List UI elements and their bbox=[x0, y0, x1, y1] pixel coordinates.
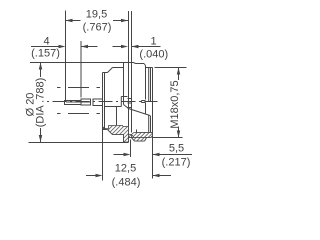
main body bottom bbox=[113, 134, 129, 136]
hatched collar band bbox=[132, 138, 147, 142]
insulator cone (section) bbox=[124, 105, 151, 116]
front interior verticals lower bbox=[149, 116, 151, 133]
M18 extension top y=67.5 bbox=[155, 67, 187, 69]
hatched gasket sliver bbox=[129, 135, 132, 138]
solder cup inner line bbox=[66, 101, 91, 103]
arrow 1 right bbox=[132, 45, 139, 49]
svg-text:(DIA .788): (DIA .788) bbox=[34, 78, 46, 128]
svg-text:(.484): (.484) bbox=[112, 177, 141, 189]
thread top bbox=[146, 67, 153, 69]
collar top right corner bbox=[144, 64, 146, 66]
collar bottom bbox=[135, 140, 145, 142]
arrow M18 down bbox=[177, 131, 181, 138]
rear face line 2 bbox=[104, 73, 106, 130]
collar bottom chamfer right bbox=[145, 138, 147, 142]
svg-text:19,5: 19,5 bbox=[86, 8, 107, 20]
collar front / cavity wall bbox=[145, 66, 147, 100]
arrow 19,5 left bbox=[66, 19, 73, 23]
arrow M18 up bbox=[177, 68, 181, 75]
cavity lower wall bbox=[145, 103, 147, 115]
extension line solder-cup tip x=65.5 bbox=[65, 11, 67, 101]
main body top bbox=[113, 67, 124, 69]
svg-text:4: 4 bbox=[43, 36, 49, 48]
arrow 1 left bbox=[121, 45, 128, 49]
gasket + thread bottom bbox=[129, 137, 152, 139]
rear top chamfer bbox=[108, 68, 113, 73]
flange left lower bbox=[123, 135, 125, 143]
svg-text:(.157): (.157) bbox=[31, 48, 60, 60]
hatched thread band bbox=[132, 133, 153, 138]
front face + extension x=152.5 bbox=[152, 68, 154, 179]
M18 extension bottom y=137.5 bbox=[153, 137, 183, 139]
insulator rear step bbox=[116, 107, 118, 126]
cavity back top bbox=[142, 100, 146, 102]
bore bottom line bbox=[136, 132, 153, 134]
thread front chamfer bbox=[151, 136, 153, 138]
rear cylinder top bbox=[103, 72, 108, 74]
bushing bbox=[93, 99, 103, 106]
arrow 4 left bbox=[59, 45, 66, 49]
svg-text:1: 1 bbox=[150, 36, 156, 48]
dimension 5,5 lines bbox=[114, 154, 193, 156]
svg-text:5,5: 5,5 bbox=[169, 143, 184, 155]
upper contact centerline bbox=[57, 87, 103, 89]
svg-text:(.767): (.767) bbox=[83, 22, 112, 34]
collar top bbox=[136, 63, 145, 65]
dimension 19,5 lines bbox=[66, 20, 129, 22]
extension line cup end x=81 bbox=[80, 41, 82, 98]
dimension M18 vertical segments bbox=[178, 68, 180, 138]
extension line flange front x=128.5 bbox=[128, 11, 130, 142]
arrow 12,5 left bbox=[96, 174, 103, 178]
front interior verticals upper bbox=[149, 68, 151, 102]
dimension 4 lines bbox=[31, 46, 98, 48]
dimension 12,5 lines bbox=[86, 175, 171, 177]
cavity back face bbox=[141, 101, 143, 103]
svg-text:(.217): (.217) bbox=[162, 157, 191, 169]
svg-text:M18x0,75: M18x0,75 bbox=[169, 80, 181, 128]
arrow 12,5 right bbox=[153, 174, 160, 178]
gasket bore bars bbox=[128, 99, 133, 108]
dimension O20 vertical segments bbox=[40, 63, 42, 143]
svg-text:(.040): (.040) bbox=[139, 49, 168, 61]
insulator bore front bbox=[120, 97, 122, 107]
rear bottom chamfer bbox=[108, 130, 113, 135]
flange rear face bbox=[123, 63, 125, 105]
solder cup outer bbox=[65, 101, 82, 105]
extension line flange bottom y=142.5 bbox=[29, 142, 129, 144]
arrow 5,5 right bbox=[153, 153, 160, 157]
cavity back bottom bbox=[142, 102, 146, 104]
lower contact centerline bbox=[57, 113, 102, 115]
hatched section rear band bbox=[103, 126, 129, 143]
svg-text:12,5: 12,5 bbox=[115, 162, 136, 174]
inner bore line bbox=[105, 106, 122, 108]
crimp barrel bbox=[81, 99, 91, 105]
extension 5,5 left x=130.5 bbox=[130, 140, 132, 158]
arrow O20 down bbox=[39, 135, 43, 142]
rear face line 1 bbox=[102, 73, 104, 130]
dimension 1 lines bbox=[113, 46, 161, 48]
collar bottom chamfer left bbox=[132, 138, 135, 142]
arrow O20 up bbox=[39, 63, 43, 70]
extension line gasket rear x=131.5 bbox=[131, 11, 133, 133]
collar top left corner bbox=[134, 63, 136, 64]
main centerline bbox=[47, 101, 158, 103]
rear cylinder bottom bbox=[103, 129, 108, 131]
upper bore line bbox=[121, 96, 127, 98]
extension line flange top y=62.5 bbox=[30, 62, 134, 64]
arrow 19,5 right bbox=[121, 19, 128, 23]
arrow 4 right bbox=[81, 45, 88, 49]
extension 12,5 left x=102.5 lower part bbox=[102, 129, 104, 181]
arrow 5,5 left bbox=[124, 153, 131, 157]
collar inner stub bbox=[136, 130, 138, 133]
